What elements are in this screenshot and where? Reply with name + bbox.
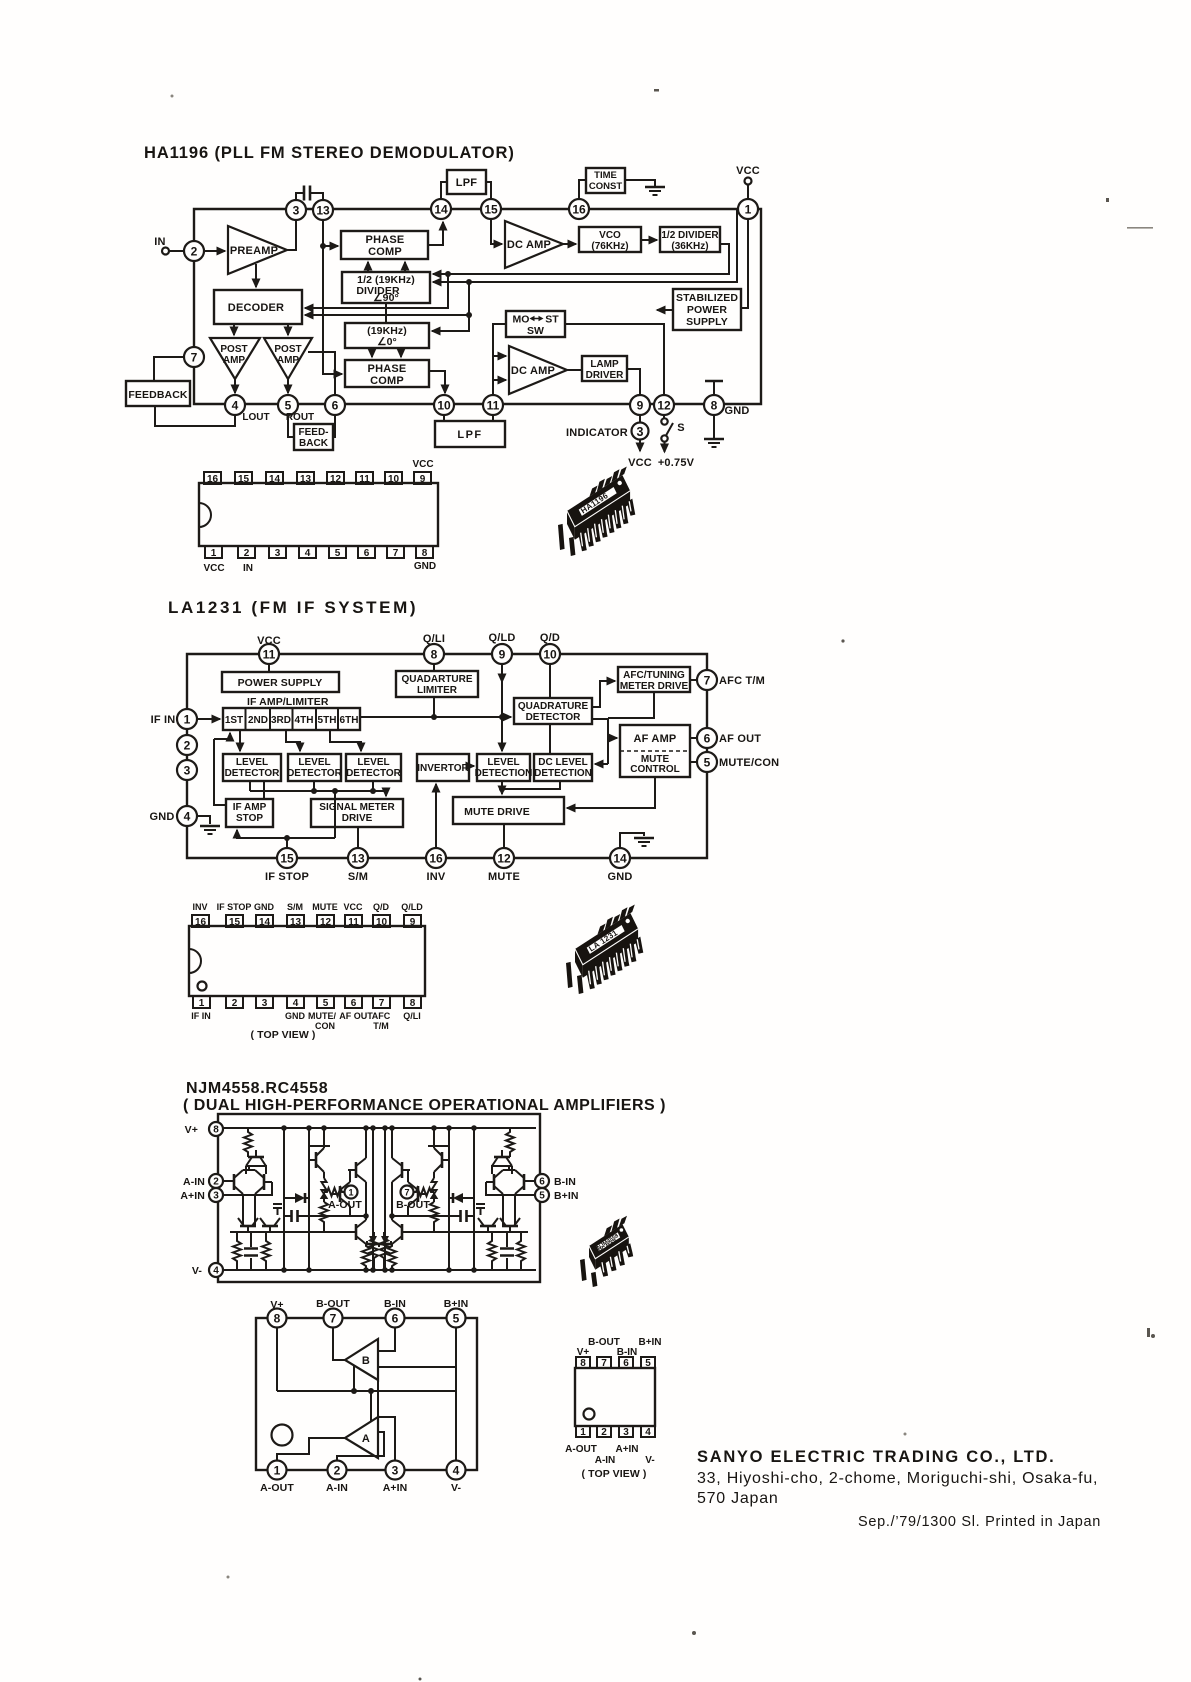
svg-text:S/M: S/M xyxy=(287,902,303,912)
wire pin10 to LPF bottom xyxy=(443,415,445,421)
IC front leg highlights xyxy=(581,501,631,546)
wire diff tails xyxy=(243,1166,255,1226)
svg-text:8: 8 xyxy=(422,548,428,559)
pin 5 xyxy=(535,1188,549,1202)
pin 12 xyxy=(654,395,674,415)
svg-text:10: 10 xyxy=(437,399,451,413)
pin 3 xyxy=(256,996,273,1008)
wire quad detector down to dc level detection xyxy=(549,724,551,754)
diff pair node xyxy=(246,1166,266,1174)
wire pin2 to preamp xyxy=(204,250,225,252)
wire pin11 up to MO-ST SW xyxy=(493,324,506,395)
pin 3 xyxy=(386,1461,405,1480)
pin 3 xyxy=(286,200,306,220)
svg-text:ROUT: ROUT xyxy=(286,412,314,423)
svg-text:8: 8 xyxy=(410,998,416,1009)
svg-text:DETECTION: DETECTION xyxy=(475,768,533,779)
block VCO xyxy=(579,227,641,252)
svg-text:ST: ST xyxy=(545,314,559,326)
block LEVEL DETECTOR 1 xyxy=(223,754,281,781)
pin 13 xyxy=(287,915,304,927)
wire feedback line L1 from 36KHz divider to 19KHz divider xyxy=(433,244,729,274)
IC back legs xyxy=(598,905,635,935)
wire mid node xyxy=(316,1215,366,1217)
svg-text:9: 9 xyxy=(420,474,426,485)
svg-text:GND: GND xyxy=(724,405,749,417)
junction L2 xyxy=(466,279,472,285)
transistor Q4 xyxy=(240,1225,256,1228)
svg-text:5: 5 xyxy=(453,1312,460,1326)
svg-text:1: 1 xyxy=(199,998,205,1009)
wire pin3 stub xyxy=(222,1194,252,1196)
pin 4 xyxy=(177,806,197,826)
IC label band xyxy=(597,1232,621,1251)
svg-text:13: 13 xyxy=(316,204,330,218)
svg-text:TIME: TIME xyxy=(594,170,617,181)
block LEVEL DETECTION xyxy=(477,754,530,781)
pin 8 xyxy=(576,1357,590,1368)
capacitor across pins 3-13 xyxy=(296,193,323,200)
V+ rail xyxy=(222,1127,536,1129)
svg-text:8: 8 xyxy=(580,1358,586,1369)
svg-text:SW: SW xyxy=(527,325,544,337)
wire bias top xyxy=(323,1128,325,1178)
svg-text:AF OUT: AF OUT xyxy=(719,733,761,745)
junction ld3 xyxy=(370,788,376,794)
wire DC amp to lamp driver xyxy=(567,369,582,371)
svg-text:POST: POST xyxy=(220,344,247,355)
wire decoder to post amp R xyxy=(287,324,289,335)
svg-text:IF STOP: IF STOP xyxy=(265,871,309,883)
wire pin8 to ground xyxy=(713,415,715,438)
svg-text:570 Japan: 570 Japan xyxy=(697,1490,778,1507)
block QUADRATURE DETECTOR xyxy=(514,698,592,724)
zener diode xyxy=(369,1236,377,1244)
wire afc bottom to junction xyxy=(608,692,654,718)
svg-text:7: 7 xyxy=(601,1358,607,1369)
svg-text:FEEDBACK: FEEDBACK xyxy=(128,389,187,401)
svg-text:5: 5 xyxy=(335,548,341,559)
svg-text:2: 2 xyxy=(213,1177,219,1188)
IC front legs xyxy=(578,499,635,552)
wire top bias row xyxy=(309,1145,330,1147)
pin 16 xyxy=(569,199,589,219)
svg-text:Q/D: Q/D xyxy=(540,632,560,644)
block DC LEVEL DETECTION xyxy=(534,754,592,781)
pin 4 xyxy=(447,1461,466,1480)
svg-text:GND: GND xyxy=(607,871,632,883)
wire branch to DC amp input 1 xyxy=(493,355,506,357)
wire q9 xyxy=(336,1216,366,1232)
svg-text:DETECTOR: DETECTOR xyxy=(526,712,582,723)
pin 6 xyxy=(697,728,717,748)
transistor Q5 xyxy=(262,1225,278,1228)
svg-text:1: 1 xyxy=(580,1427,586,1438)
pin 2 xyxy=(184,241,204,261)
wire 19KHz to phase comp lower 2 xyxy=(400,348,402,357)
wire pin6 to feed-back box xyxy=(333,415,335,437)
svg-text:33, Hiyoshi-cho, 2-chome, Mori: 33, Hiyoshi-cho, 2-chome, Moriguchi-shi,… xyxy=(697,1470,1098,1487)
svg-text:MUTE DRIVE: MUTE DRIVE xyxy=(464,806,530,818)
svg-text:1: 1 xyxy=(348,1188,353,1198)
svg-text:9: 9 xyxy=(410,917,416,928)
svg-text:2: 2 xyxy=(191,245,198,259)
svg-text:1: 1 xyxy=(274,1464,281,1478)
wire pin15 to DC amp input xyxy=(491,219,502,244)
op-amp A xyxy=(345,1417,378,1458)
svg-text:4: 4 xyxy=(213,1266,219,1277)
svg-text:10: 10 xyxy=(376,917,388,928)
wire pin5 down to pin4 xyxy=(455,1327,457,1461)
junction q/li xyxy=(431,714,437,720)
svg-text:6TH: 6TH xyxy=(340,715,359,726)
svg-text:IN: IN xyxy=(243,563,253,574)
block TIME CONST xyxy=(586,168,625,193)
svg-text:16: 16 xyxy=(195,917,207,928)
wire pin 16 to invertor xyxy=(435,784,437,848)
pin 2 xyxy=(597,1426,611,1437)
wire pin1 to if amp xyxy=(197,718,220,720)
svg-text:7: 7 xyxy=(191,351,198,365)
junction ld2 xyxy=(311,788,317,794)
resistor bottom 2 xyxy=(262,1232,270,1270)
svg-text:14: 14 xyxy=(269,474,281,485)
transistor Q1 xyxy=(248,1156,264,1159)
svg-text:AFC: AFC xyxy=(372,1011,391,1021)
svg-text:5TH: 5TH xyxy=(318,715,337,726)
IC body top face xyxy=(575,913,638,965)
block AFC/TUNING METER DRIVE xyxy=(618,667,690,692)
pin 12 xyxy=(494,848,514,868)
svg-text:LPF: LPF xyxy=(456,177,477,189)
pin 1 xyxy=(193,996,210,1008)
svg-text:DETECTOR: DETECTOR xyxy=(287,768,343,779)
svg-text:AF OUT: AF OUT xyxy=(339,1011,373,1021)
index dot xyxy=(584,1409,595,1420)
pin 9 xyxy=(404,915,421,927)
wire pin8 V+ down to rail xyxy=(276,1327,278,1391)
pin 12 xyxy=(327,472,344,484)
svg-text:A+IN: A+IN xyxy=(383,1482,408,1494)
pin 13 xyxy=(297,472,314,484)
svg-text:7: 7 xyxy=(379,998,385,1009)
svg-text:A+IN: A+IN xyxy=(180,1190,205,1202)
pin 16 xyxy=(204,472,221,484)
DIP body xyxy=(575,1368,655,1426)
svg-text:16: 16 xyxy=(572,203,586,217)
block LEVEL DETECTOR 2 xyxy=(288,754,341,781)
svg-text:V+: V+ xyxy=(577,1347,590,1358)
wire mute drive to pin 12 xyxy=(503,824,505,848)
index circle xyxy=(272,1425,293,1446)
wire L1 branch to decoder input 1 xyxy=(305,274,448,308)
svg-text:SIGNAL METER: SIGNAL METER xyxy=(319,802,395,813)
wire between op-amp bases xyxy=(377,1380,379,1417)
op-amp PREAMP xyxy=(228,226,287,274)
svg-text:V+: V+ xyxy=(185,1124,198,1136)
wire mute control down to mute drive xyxy=(567,777,655,808)
svg-text:LAMP: LAMP xyxy=(590,359,619,370)
wire power supply output arrow xyxy=(657,309,673,311)
wire internal rail xyxy=(277,1390,456,1392)
wire VCO to divider xyxy=(641,239,657,241)
pin 8 xyxy=(704,395,724,415)
wire VCC to pin 1 xyxy=(747,185,749,200)
svg-text:POWER: POWER xyxy=(687,304,727,316)
svg-text:B-OUT: B-OUT xyxy=(316,1298,350,1310)
wire MO-ST SW to pin 12 xyxy=(565,324,664,395)
wire IN to pin 2 xyxy=(169,250,184,252)
svg-text:LEVEL: LEVEL xyxy=(487,757,519,768)
pin 9 xyxy=(414,472,431,484)
svg-text:COMP: COMP xyxy=(370,375,404,387)
wire divider up to phase comp xyxy=(367,262,369,272)
wire af amp to pin 6 xyxy=(690,737,697,739)
wire phase comp up to pin 14 xyxy=(428,222,443,245)
svg-text:6: 6 xyxy=(364,548,370,559)
wire junction down to if stop line xyxy=(237,791,335,838)
svg-text:6: 6 xyxy=(351,998,357,1009)
op-amp DC AMP (bottom) xyxy=(509,346,567,394)
resistor R top-left xyxy=(244,1128,252,1157)
wire 1st stage to level detector 1 xyxy=(239,730,241,751)
pin 1 xyxy=(177,709,197,729)
svg-text:( TOP VIEW ): ( TOP VIEW ) xyxy=(582,1468,647,1480)
wire pin7 to op-amp B output xyxy=(333,1327,345,1360)
svg-text:CONTROL: CONTROL xyxy=(630,764,679,775)
svg-text:IF AMP: IF AMP xyxy=(233,802,267,813)
wire pin11 to LPF bottom xyxy=(492,415,494,421)
pin 11 xyxy=(483,395,503,415)
wire limiter down to signal line xyxy=(433,697,435,717)
svg-text:7: 7 xyxy=(704,674,711,688)
pin 13 xyxy=(313,200,333,220)
transistor Q9 output bottom xyxy=(355,1224,358,1240)
svg-text:7: 7 xyxy=(393,548,399,559)
junction L2 branch xyxy=(466,312,472,318)
svg-text:MUTE/CON: MUTE/CON xyxy=(719,757,779,769)
svg-text:NJM4558.RC4558: NJM4558.RC4558 xyxy=(186,1080,328,1097)
svg-text:A-IN: A-IN xyxy=(595,1455,616,1466)
IC left legs xyxy=(558,524,565,550)
junction stop line xyxy=(332,788,338,794)
svg-text:11: 11 xyxy=(487,399,500,413)
pin 16 xyxy=(426,848,446,868)
svg-text:T/M: T/M xyxy=(373,1021,389,1031)
pin 5 xyxy=(317,996,334,1008)
svg-text:INV: INV xyxy=(192,902,207,912)
pin 12 xyxy=(317,915,334,927)
junction pin 15 xyxy=(284,835,290,841)
svg-text:6: 6 xyxy=(539,1177,545,1188)
svg-text:GND: GND xyxy=(285,1011,306,1021)
svg-text:VCO: VCO xyxy=(599,230,621,241)
svg-text:9: 9 xyxy=(637,399,644,413)
terminal A-OUT xyxy=(345,1186,358,1199)
wire post amp L to pin 4 xyxy=(234,379,236,393)
IC body top face xyxy=(589,1224,629,1259)
svg-text:SANYO ELECTRIC TRADING CO., LT: SANYO ELECTRIC TRADING CO., LTD. xyxy=(697,1448,1055,1466)
pin 5 xyxy=(697,752,717,772)
svg-text:12: 12 xyxy=(320,917,332,928)
svg-text:12: 12 xyxy=(330,474,342,485)
wire pin2 stub xyxy=(222,1180,232,1182)
wire Q7 xyxy=(349,1170,351,1216)
ground (time const) xyxy=(645,187,665,195)
svg-text:6: 6 xyxy=(623,1358,629,1369)
svg-text:3: 3 xyxy=(623,1427,629,1438)
svg-text:PREAMP: PREAMP xyxy=(230,245,278,257)
svg-text:Q/LI: Q/LI xyxy=(403,1011,421,1021)
switch S xyxy=(663,415,665,418)
svg-text:AMP: AMP xyxy=(277,355,300,366)
block LPF (top) xyxy=(447,170,486,194)
svg-text:6: 6 xyxy=(332,399,339,413)
block STABILIZED POWER SUPPLY xyxy=(673,289,741,330)
svg-text:B-IN: B-IN xyxy=(554,1176,576,1188)
svg-text:LEVEL: LEVEL xyxy=(357,757,389,768)
svg-text:VCC: VCC xyxy=(343,902,363,912)
svg-text:4: 4 xyxy=(305,548,311,559)
svg-text:DECODER: DECODER xyxy=(228,302,284,314)
svg-text:MUTE: MUTE xyxy=(312,902,338,912)
outer IC boundary box xyxy=(194,209,761,404)
pin 2 xyxy=(328,1461,347,1480)
svg-text:B+IN: B+IN xyxy=(444,1298,469,1310)
block INVERTOR xyxy=(417,754,469,781)
svg-text:8: 8 xyxy=(431,648,438,662)
mosfet symbol xyxy=(273,1204,282,1215)
svg-text:4: 4 xyxy=(645,1427,651,1438)
transistor Q3 diff right xyxy=(263,1174,266,1190)
svg-text:Q/LI: Q/LI xyxy=(423,633,445,645)
outer box xyxy=(256,1318,477,1470)
svg-text:B-OUT: B-OUT xyxy=(396,1199,430,1211)
pin 4 xyxy=(287,996,304,1008)
terminal B-OUT xyxy=(401,1186,414,1199)
pin 6 xyxy=(619,1357,633,1368)
svg-text:VCC: VCC xyxy=(736,165,760,177)
svg-text:6: 6 xyxy=(704,732,711,746)
pin 7 xyxy=(184,347,204,367)
svg-text:LEVEL: LEVEL xyxy=(298,757,330,768)
junction q/ld xyxy=(499,714,505,720)
svg-text:DRIVER: DRIVER xyxy=(586,370,625,381)
resistor A-OUT horizontal xyxy=(324,1188,345,1196)
svg-text:DC AMP: DC AMP xyxy=(507,239,551,251)
svg-text:LOUT: LOUT xyxy=(242,412,269,423)
pin 8 xyxy=(424,644,444,664)
wire DC amp to VCO xyxy=(563,243,576,245)
svg-text:3: 3 xyxy=(392,1464,399,1478)
IC left legs xyxy=(580,1259,587,1281)
svg-text:12: 12 xyxy=(497,852,511,866)
wire invertor to level detection xyxy=(469,765,474,767)
svg-text:( TOP VIEW ): ( TOP VIEW ) xyxy=(251,1029,316,1041)
pin 4 xyxy=(225,395,245,415)
svg-text:5: 5 xyxy=(645,1358,651,1369)
pin 1 xyxy=(205,546,222,558)
svg-text:V-: V- xyxy=(192,1265,203,1277)
junction mute xyxy=(499,786,505,792)
diode pair xyxy=(295,1193,305,1203)
block PHASE COMP (upper) xyxy=(341,231,428,259)
pin 14 xyxy=(256,915,273,927)
pin 1 xyxy=(576,1426,590,1437)
pin 4 xyxy=(299,546,316,558)
IC front legs xyxy=(600,1243,634,1277)
wire if amp row output to quadrature detector xyxy=(360,716,511,718)
svg-text:V-: V- xyxy=(645,1455,654,1466)
pin 10 xyxy=(434,395,454,415)
transistor Q6 xyxy=(315,1152,318,1168)
svg-text:LIMITER: LIMITER xyxy=(417,685,458,696)
svg-text:1: 1 xyxy=(745,203,752,217)
wire divider down to 19KHz xyxy=(385,303,387,323)
wire pin10 down to quadrature detector xyxy=(549,664,551,698)
svg-text:8: 8 xyxy=(711,399,718,413)
svg-text:METER DRIVE: METER DRIVE xyxy=(620,681,689,692)
pin 5 xyxy=(329,546,346,558)
op-amp POST AMP (right) xyxy=(264,338,312,379)
svg-text:DETECTOR: DETECTOR xyxy=(225,768,281,779)
svg-text:7: 7 xyxy=(330,1312,337,1326)
wire pin 15 up xyxy=(286,838,288,848)
svg-text:A-OUT: A-OUT xyxy=(260,1482,294,1494)
pin 5 xyxy=(447,1309,466,1328)
svg-text:7: 7 xyxy=(404,1188,409,1198)
DIP body xyxy=(189,926,425,996)
svg-text:2: 2 xyxy=(601,1427,607,1438)
svg-text:DETECTION: DETECTION xyxy=(534,768,592,779)
pin 10 xyxy=(373,915,390,927)
svg-text:4: 4 xyxy=(232,399,239,413)
svg-text:Q/LD: Q/LD xyxy=(401,902,423,912)
svg-text:A-OUT: A-OUT xyxy=(565,1444,597,1455)
svg-text:S: S xyxy=(677,422,685,434)
svg-text:11: 11 xyxy=(359,474,370,485)
pin 3 xyxy=(619,1426,633,1437)
IC back legs xyxy=(590,467,627,497)
wire quad det to af amp xyxy=(592,719,617,764)
svg-text:HA1196 (PLL FM STEREO DEMODULA: HA1196 (PLL FM STEREO DEMODULATOR) xyxy=(144,144,515,162)
pin 7 xyxy=(697,670,717,690)
resistor A-out upper xyxy=(322,1178,327,1198)
svg-text:2: 2 xyxy=(232,998,238,1009)
svg-text:3: 3 xyxy=(184,764,191,778)
IC index dot xyxy=(626,919,630,923)
pin 14 xyxy=(610,848,630,868)
wire level detection down to mute drive xyxy=(501,781,503,794)
svg-text:16: 16 xyxy=(429,852,443,866)
svg-text:AMP: AMP xyxy=(223,355,246,366)
svg-text:∠90°: ∠90° xyxy=(373,292,399,304)
svg-text:IF IN: IF IN xyxy=(151,714,176,726)
svg-text:5: 5 xyxy=(539,1191,545,1202)
wire ld2 to bus xyxy=(313,781,315,791)
svg-text:COMP: COMP xyxy=(368,246,402,258)
svg-text:13: 13 xyxy=(351,852,365,866)
capacitor bar above pin 8 xyxy=(705,380,723,383)
IC front leg highlights xyxy=(602,1246,629,1273)
pin 15 xyxy=(226,915,243,927)
svg-text:11: 11 xyxy=(263,648,276,662)
svg-text:8: 8 xyxy=(213,1125,219,1136)
IC body side faces xyxy=(595,1237,629,1270)
svg-text:BACK: BACK xyxy=(299,438,329,449)
wire Q1 collector xyxy=(245,1166,247,1174)
wire pin8 to quadarture limiter xyxy=(433,664,435,671)
